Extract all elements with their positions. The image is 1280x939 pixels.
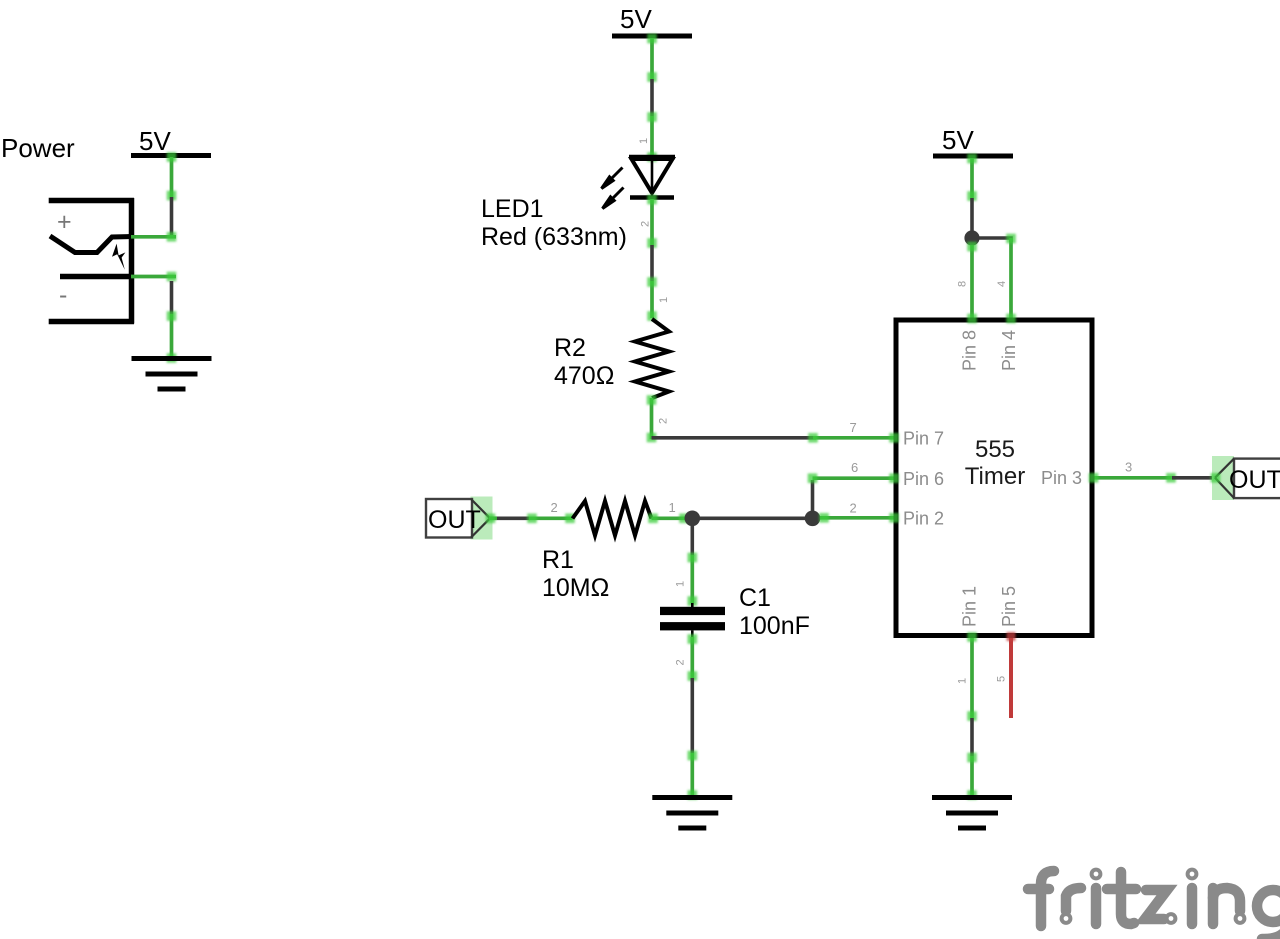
svg-text:Red (633nm): Red (633nm) <box>481 223 627 251</box>
svg-text:R1: R1 <box>542 546 574 574</box>
svg-text:2: 2 <box>850 501 857 516</box>
svg-text:1: 1 <box>658 297 670 303</box>
svg-text:Pin 8: Pin 8 <box>960 330 980 371</box>
svg-text:Timer: Timer <box>965 463 1025 490</box>
svg-text:6: 6 <box>851 460 858 475</box>
svg-text:Pin 5: Pin 5 <box>999 586 1019 627</box>
svg-text:10MΩ: 10MΩ <box>542 574 609 602</box>
svg-text:1: 1 <box>675 581 687 587</box>
svg-text:555: 555 <box>975 436 1015 463</box>
svg-text:2: 2 <box>640 221 652 227</box>
svg-text:2: 2 <box>675 659 687 665</box>
svg-text:LED1: LED1 <box>481 195 544 223</box>
svg-text:Pin 2: Pin 2 <box>903 509 944 529</box>
svg-text:Pin 1: Pin 1 <box>960 586 980 627</box>
svg-text:7: 7 <box>850 420 857 435</box>
svg-text:5V: 5V <box>620 4 652 34</box>
svg-text:Pin 6: Pin 6 <box>903 469 944 489</box>
svg-text:C1: C1 <box>739 584 771 612</box>
svg-text:1: 1 <box>957 678 969 684</box>
svg-text:OUT: OUT <box>1229 466 1280 494</box>
svg-text:3: 3 <box>1125 460 1132 475</box>
svg-text:Power: Power <box>1 133 75 163</box>
svg-text:R2: R2 <box>554 334 586 362</box>
svg-text:Pin 7: Pin 7 <box>903 429 944 449</box>
svg-text:Pin 3: Pin 3 <box>1041 468 1082 488</box>
svg-text:OUT: OUT <box>428 506 481 534</box>
svg-text:470Ω: 470Ω <box>554 362 614 390</box>
svg-text:-: - <box>59 281 67 309</box>
svg-text:2: 2 <box>551 500 558 515</box>
svg-text:Pin 4: Pin 4 <box>999 330 1019 371</box>
svg-text:4: 4 <box>996 281 1008 287</box>
svg-text:5V: 5V <box>942 125 974 155</box>
svg-text:5: 5 <box>996 676 1008 682</box>
svg-text:5V: 5V <box>139 126 171 156</box>
svg-text:1: 1 <box>638 138 650 144</box>
svg-text:8: 8 <box>957 281 969 287</box>
svg-text:1: 1 <box>669 500 676 515</box>
svg-text:2: 2 <box>658 418 670 424</box>
svg-text:100nF: 100nF <box>739 612 810 640</box>
svg-text:+: + <box>57 208 72 236</box>
